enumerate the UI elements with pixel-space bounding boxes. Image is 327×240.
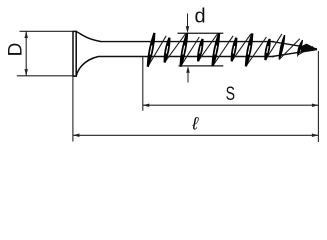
svg-text:S: S xyxy=(226,84,235,105)
dimension D extension line top xyxy=(20,30,74,32)
thread crest 2 xyxy=(165,38,170,63)
thread flank 7-8 xyxy=(246,37,267,66)
extension line right (tip) xyxy=(317,51,319,142)
thread flank 3-4 xyxy=(181,37,200,67)
thread crest 10 xyxy=(298,40,303,55)
thread flank 4-5 xyxy=(198,34,218,62)
thread crest 9 xyxy=(279,35,284,59)
thread flank 9-10 xyxy=(279,39,300,60)
thread flank 1-2 xyxy=(148,36,166,67)
shank core lines xyxy=(98,42,274,57)
thread flank 8-9 xyxy=(265,34,282,60)
thread flank 6-7 xyxy=(232,34,251,61)
dimension d bottom arrow xyxy=(186,66,190,83)
dimension D line with arrows xyxy=(24,31,28,76)
dimension d extension line top xyxy=(178,32,224,34)
thread crest 3 xyxy=(181,33,188,66)
thread crest 7 xyxy=(246,34,252,67)
dimension d extension line bottom xyxy=(179,65,224,67)
dimension d top arrow xyxy=(186,14,190,34)
screw head (bugle head, double-line flat face) xyxy=(72,31,102,76)
thread crest 5 xyxy=(213,33,220,66)
thread flank 2-3 xyxy=(165,34,186,63)
thread crest 8 xyxy=(265,39,269,60)
svg-text:D: D xyxy=(6,43,27,57)
dimension D extension line bottom xyxy=(17,75,76,77)
thread flank 10-tip xyxy=(298,47,313,56)
dimension S extension line (thread start) xyxy=(142,57,144,111)
thread crest 4 xyxy=(198,39,202,61)
thread flank 5-6 xyxy=(213,36,234,67)
dimension l extension line (head) xyxy=(72,76,74,141)
dimension l line with arrows xyxy=(73,134,319,138)
thread crest 6 xyxy=(232,38,237,61)
svg-text:ℓ: ℓ xyxy=(191,114,199,134)
screw tip taper xyxy=(272,42,317,57)
dimension S line with arrows xyxy=(143,103,319,107)
screw tip point (solid) xyxy=(301,44,317,52)
thread crest 1 xyxy=(148,33,155,67)
svg-text:d: d xyxy=(194,5,205,27)
